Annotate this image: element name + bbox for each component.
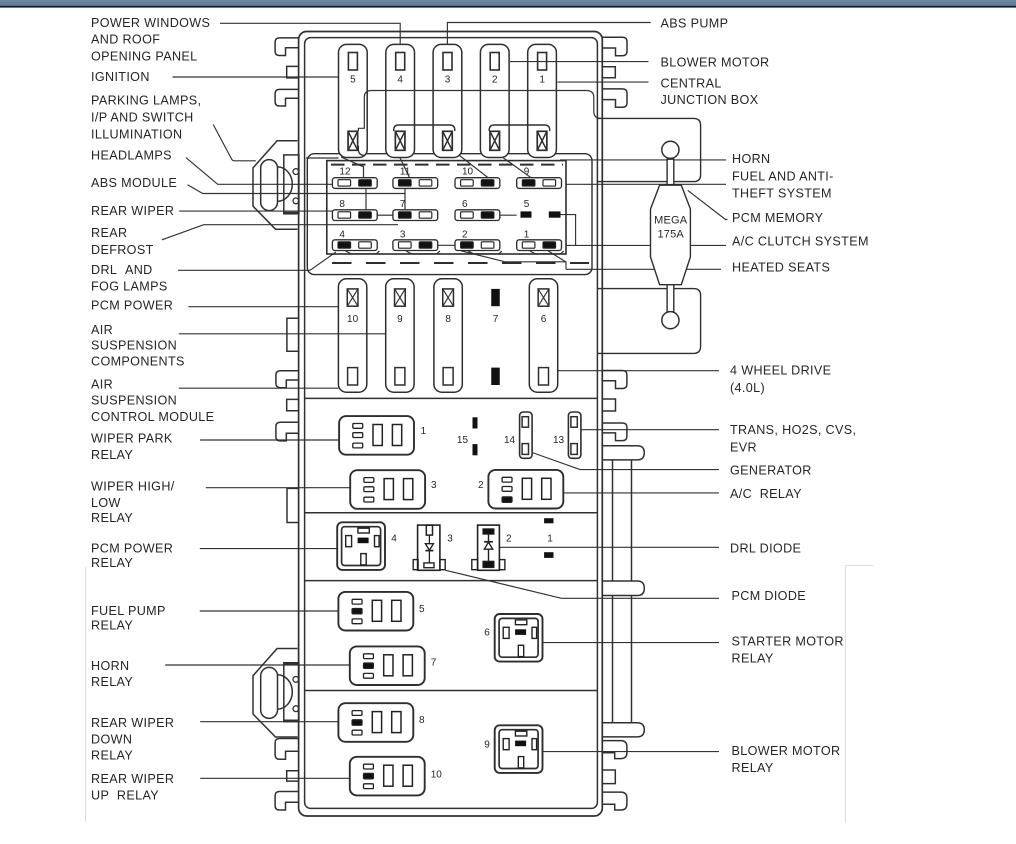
minifuse 6 <box>455 199 500 221</box>
svg-text:6: 6 <box>462 199 468 210</box>
svg-text:12: 12 <box>339 167 351 178</box>
right rail vertical A upper <box>612 460 614 581</box>
svg-text:JUNCTION BOX: JUNCTION BOX <box>661 93 759 107</box>
fuse F4 top holder <box>386 44 415 157</box>
svg-text:WIPER PARK: WIPER PARK <box>91 431 173 445</box>
svg-text:REAR WIPER: REAR WIPER <box>91 204 174 218</box>
svg-text:A/C RELAY: A/C RELAY <box>730 487 802 501</box>
wire ABS MODULE leader <box>188 185 405 194</box>
wire diagonal under minifuse 2 <box>461 251 566 262</box>
wire A/C RELAY leader <box>563 492 719 494</box>
svg-text:4: 4 <box>339 229 345 240</box>
lower connector stadium insert <box>261 667 278 718</box>
svg-text:11: 11 <box>400 167 411 178</box>
minifuse 8 <box>332 199 377 221</box>
wire GENERATOR leader <box>532 453 719 470</box>
section divider under diode row <box>305 580 598 582</box>
svg-text:THEFT SYSTEM: THEFT SYSTEM <box>732 187 832 201</box>
diode D3 <box>413 525 445 570</box>
svg-text:DOWN: DOWN <box>91 732 132 746</box>
wire bus fuse5 to mega bracket <box>358 91 601 132</box>
right rail rung middle <box>602 581 644 596</box>
wire WIPER PARK RELAY leader <box>200 439 339 441</box>
upper connector stadium insert <box>261 160 278 211</box>
svg-text:CONTROL MODULE: CONTROL MODULE <box>91 410 214 424</box>
svg-text:AND ROOF: AND ROOF <box>91 33 160 47</box>
fuse F5 flare <box>358 146 364 155</box>
minifuse 11 <box>393 167 438 189</box>
mega fuse top terminal circle <box>662 141 679 158</box>
svg-text:2: 2 <box>492 75 498 86</box>
svg-text:4: 4 <box>391 533 397 544</box>
minifuse 7 <box>393 199 438 221</box>
LEFT LABELS <box>91 16 214 802</box>
relay R9 blower motor <box>484 725 542 773</box>
fuse F3 top holder <box>433 44 462 157</box>
svg-text:AIR: AIR <box>91 323 113 337</box>
svg-text:POWER WINDOWS: POWER WINDOWS <box>91 16 210 30</box>
svg-text:BLOWER MOTOR: BLOWER MOTOR <box>661 56 770 70</box>
wire FUEL AND ANTI-THEFT leader <box>566 183 726 185</box>
wire FUEL PUMP RELAY leader <box>200 610 339 612</box>
wire minifuse 11 to 7 <box>404 188 406 209</box>
wire DRL AND FOG LAMPS leader <box>178 252 336 270</box>
svg-text:HEADLAMPS: HEADLAMPS <box>91 149 172 163</box>
left mounting tab hook 5 <box>275 739 299 760</box>
minifuse 5 terminals (fuse removed) <box>521 199 561 218</box>
svg-text:1: 1 <box>539 75 545 86</box>
svg-text:4: 4 <box>397 75 403 86</box>
wire BLOWER MOTOR leader <box>510 61 649 63</box>
svg-text:1: 1 <box>524 229 530 240</box>
svg-text:5: 5 <box>524 199 530 210</box>
minifuse 3 <box>393 229 438 250</box>
right rail vertical B upper <box>631 460 633 581</box>
mega fuse top stem <box>667 159 674 184</box>
svg-text:3: 3 <box>400 229 406 240</box>
svg-text:ABS MODULE: ABS MODULE <box>91 176 177 190</box>
upper connector pin circle 1 <box>293 169 299 175</box>
holder lip under row3 fuse <box>468 251 502 254</box>
diode D1 terminals <box>544 518 553 558</box>
section divider under maxi fuse row <box>305 397 598 399</box>
wire HORN RELAY leader <box>165 664 350 666</box>
wire fuse3 to minifuse 10 <box>452 150 488 178</box>
svg-text:5: 5 <box>350 75 356 86</box>
left mounting tab square 2 <box>287 399 299 410</box>
svg-text:BLOWER MOTOR: BLOWER MOTOR <box>732 744 841 758</box>
svg-text:3: 3 <box>447 533 453 544</box>
relay R6 starter motor <box>484 614 542 662</box>
svg-text:SUSPENSION: SUSPENSION <box>91 338 177 352</box>
wire PCM POWER RELAY leader <box>200 548 337 550</box>
wire WIPER HIGH/LOW RELAY leader <box>206 487 350 489</box>
svg-text:9: 9 <box>397 314 403 325</box>
wire TRANS HO2S CVS EVR leader <box>581 429 720 431</box>
fuse F1 top holder <box>528 44 557 157</box>
svg-text:OPENING PANEL: OPENING PANEL <box>91 49 198 63</box>
svg-text:RELAY: RELAY <box>732 761 774 775</box>
right rail rung bottom <box>602 723 644 737</box>
wire IGNITION leader <box>173 76 339 78</box>
wire fuse2 to minifuse 9 <box>493 150 532 178</box>
svg-text:6: 6 <box>541 314 547 325</box>
svg-text:IGNITION: IGNITION <box>91 70 150 84</box>
svg-text:13: 13 <box>553 435 565 446</box>
svg-text:PARKING LAMPS,: PARKING LAMPS, <box>91 94 201 108</box>
wire PCM MEMORY leader <box>688 190 728 219</box>
wire REAR WIPER DOWN RELAY leader <box>200 721 338 723</box>
svg-text:PCM DIODE: PCM DIODE <box>732 589 807 603</box>
left mounting tab hook 4 <box>276 422 299 441</box>
relay R8 rear wiper down <box>338 703 425 742</box>
svg-text:175A: 175A <box>657 228 684 240</box>
svg-text:14: 14 <box>504 435 516 446</box>
central junction box inner outline <box>305 38 598 809</box>
lower connector plate <box>284 663 299 722</box>
svg-text:GENERATOR: GENERATOR <box>730 464 812 478</box>
left mounting tab square 1 <box>287 66 299 78</box>
wire fuse5 to minifuse 12 <box>341 157 364 178</box>
svg-text:PCM POWER: PCM POWER <box>91 299 173 313</box>
lower connector D arc <box>278 675 293 709</box>
right mounting tab square 1 <box>602 67 615 78</box>
svg-text:WIPER HIGH/: WIPER HIGH/ <box>91 480 175 494</box>
svg-text:TRANS, HO2S, CVS,: TRANS, HO2S, CVS, <box>730 423 856 437</box>
svg-text:DRL DIODE: DRL DIODE <box>730 542 801 556</box>
wire REAR WIPER UP RELAY leader <box>200 777 350 779</box>
wire minifuse 6 to 5 <box>499 214 516 216</box>
component 13 <box>568 412 581 458</box>
lower connector plate thick bottom <box>284 719 299 722</box>
svg-text:RELAY: RELAY <box>91 511 133 525</box>
svg-text:9: 9 <box>484 739 490 750</box>
svg-text:3: 3 <box>431 480 437 491</box>
mega fuse bottom stem <box>667 285 674 312</box>
wire AIR SUSPENSION COMPONENTS leader <box>179 333 386 335</box>
section divider under horn relay row <box>305 690 598 692</box>
upper connector octagon <box>253 141 298 230</box>
dashed line top <box>331 164 563 166</box>
svg-text:PCM MEMORY: PCM MEMORY <box>732 211 824 225</box>
svg-text:RELAY: RELAY <box>91 675 133 689</box>
relay R10 rear wiper up <box>350 757 442 796</box>
mega fuse body MEGA 175A <box>651 185 691 285</box>
svg-text:ILLUMINATION: ILLUMINATION <box>91 128 182 142</box>
RIGHT LABELS <box>661 17 869 776</box>
svg-text:LOW: LOW <box>91 496 121 510</box>
wire AIR SUSPENSION CONTROL MODULE leader <box>179 387 339 389</box>
wire POWER WINDOWS leader <box>220 23 400 44</box>
svg-text:AIR: AIR <box>91 378 113 392</box>
wire PARKING LAMPS leader <box>213 125 256 161</box>
minifuse block container <box>307 154 592 275</box>
svg-text:1: 1 <box>421 426 427 437</box>
svg-text:MEGA: MEGA <box>654 214 688 226</box>
svg-text:7: 7 <box>493 314 499 325</box>
lower connector pin circle 1 <box>293 677 299 683</box>
svg-text:REAR WIPER: REAR WIPER <box>91 716 174 730</box>
svg-text:10: 10 <box>347 314 359 325</box>
lower connector plate thick top <box>284 662 299 664</box>
svg-text:UP RELAY: UP RELAY <box>91 788 159 802</box>
wire PCM DIODE leader <box>445 570 719 598</box>
svg-text:2: 2 <box>478 480 484 491</box>
svg-text:HORN: HORN <box>91 659 129 673</box>
right mounting tab hook 1 <box>602 37 627 56</box>
svg-text:1: 1 <box>547 533 553 544</box>
left mounting tab tall rect 1 <box>287 318 299 351</box>
left mounting tab hook 1 <box>275 38 299 56</box>
svg-text:10: 10 <box>431 770 443 781</box>
maxifuse 9 holder <box>386 279 414 392</box>
wire HEADLAMPS leader <box>186 158 333 185</box>
central junction box outer outline <box>299 32 603 817</box>
minifuse 4 <box>332 229 377 250</box>
left mounting tab hook 6 <box>275 792 299 811</box>
section divider under relay row 1-2-3 <box>305 512 598 514</box>
svg-text:A/C CLUTCH SYSTEM: A/C CLUTCH SYSTEM <box>732 235 869 249</box>
svg-text:EVR: EVR <box>730 441 757 455</box>
wire A/C CLUTCH SYSTEM leader <box>561 215 727 246</box>
maxifuse 7 terminals (fuse removed) <box>491 289 500 385</box>
wire STARTER MOTOR RELAY leader <box>543 642 720 644</box>
wire ABS PUMP leader <box>447 23 650 45</box>
component 15 terminals <box>473 417 478 455</box>
wire minifuse 8 to 7 <box>377 214 393 216</box>
mega fuse bracket upper <box>597 118 700 181</box>
wire DRL DIODE leader <box>499 546 719 548</box>
wire HORN leader <box>560 159 726 161</box>
svg-text:7: 7 <box>400 199 406 210</box>
component 14 <box>520 412 533 458</box>
svg-text:STARTER MOTOR: STARTER MOTOR <box>732 635 844 649</box>
lower connector octagon <box>253 649 298 738</box>
right rail vertical A lower <box>612 596 614 723</box>
svg-text:FUEL PUMP: FUEL PUMP <box>91 604 166 618</box>
relay R5 fuel pump <box>338 592 425 631</box>
wire minifuse 3 to 2 <box>438 244 455 246</box>
right mounting tab hook very bottom <box>602 792 627 810</box>
right rail vertical B lower <box>631 596 633 723</box>
left mounting tab hook 3 <box>276 371 299 388</box>
right mounting tab square bottom <box>602 770 615 784</box>
svg-text:ABS PUMP: ABS PUMP <box>661 17 729 31</box>
svg-text:DEFROST: DEFROST <box>91 243 154 257</box>
relay R4 pcm power <box>337 522 397 570</box>
holder lip under row3 fuse <box>406 251 440 254</box>
relay R1 wiper park <box>339 416 427 455</box>
svg-text:CENTRAL: CENTRAL <box>661 77 722 91</box>
left mounting tab hook 2 <box>275 89 299 106</box>
svg-text:6: 6 <box>484 628 490 639</box>
maxifuse 6 holder <box>529 279 557 392</box>
svg-text:RELAY: RELAY <box>91 749 133 763</box>
svg-text:8: 8 <box>419 715 425 726</box>
right mounting tab hook 4 <box>602 423 627 441</box>
upper connector plate <box>284 155 299 214</box>
svg-text:REAR WIPER: REAR WIPER <box>91 772 174 786</box>
svg-text:8: 8 <box>445 314 451 325</box>
svg-text:REAR: REAR <box>91 226 127 240</box>
maxifuse 10 holder <box>338 279 366 392</box>
svg-text:COMPONENTS: COMPONENTS <box>91 355 185 369</box>
svg-text:9: 9 <box>524 167 530 178</box>
svg-text:15: 15 <box>457 435 469 446</box>
svg-text:4 WHEEL DRIVE: 4 WHEEL DRIVE <box>730 364 831 378</box>
svg-text:I/P AND SWITCH: I/P AND SWITCH <box>91 111 194 125</box>
lower connector pin circle 2 <box>293 706 299 712</box>
svg-text:HORN: HORN <box>732 152 770 166</box>
faint page artifact lines <box>86 566 874 824</box>
left mounting tab square 3 <box>287 771 299 781</box>
svg-text:2: 2 <box>462 229 468 240</box>
fuse F2 top holder <box>480 44 509 157</box>
minifuse 1 <box>517 229 562 250</box>
wire CENTRAL JUNCTION BOX leader <box>558 81 649 83</box>
relay R2 A/C <box>478 470 563 509</box>
minifuse 12 <box>332 167 377 189</box>
minifuse 10 <box>455 167 500 189</box>
svg-text:PCM POWER: PCM POWER <box>91 541 173 555</box>
left mounting tab tall rect 2 <box>287 488 299 522</box>
relay R3 wiper high/low <box>350 470 437 509</box>
right mounting tab hook bottom <box>602 741 627 759</box>
minifuse block inner rect <box>327 161 566 254</box>
wire PCM POWER leader <box>188 306 338 308</box>
svg-text:DRL AND: DRL AND <box>91 263 153 277</box>
svg-text:RELAY: RELAY <box>91 448 133 462</box>
svg-text:8: 8 <box>339 199 345 210</box>
holder lip under row3 fuse <box>530 251 564 254</box>
svg-text:FUEL AND ANTI-: FUEL AND ANTI- <box>732 170 834 184</box>
svg-text:2: 2 <box>506 533 512 544</box>
svg-text:5: 5 <box>419 604 425 615</box>
svg-text:(4.0L): (4.0L) <box>730 381 765 395</box>
mega fuse bracket lower <box>597 289 700 354</box>
right mounting tab hook 2 <box>602 89 627 107</box>
holder lip under row3 fuse <box>346 251 380 254</box>
svg-text:SUSPENSION: SUSPENSION <box>91 394 177 408</box>
right rail rung top <box>602 446 644 460</box>
bracket over fuses 4 and 3 <box>394 125 455 131</box>
upper connector plate thick bottom <box>284 212 299 215</box>
wire 4 WHEEL DRIVE leader <box>558 370 719 372</box>
mega fuse bottom terminal circle <box>662 312 679 329</box>
bracket over fuses 2 and 1 <box>489 125 550 131</box>
wire HEATED SEATS leader <box>548 251 721 269</box>
maxifuse 8 holder <box>434 279 462 392</box>
wire fuse4 to minifuse 11 <box>396 150 409 178</box>
wire REAR DEFROST leader <box>162 225 398 240</box>
svg-text:RELAY: RELAY <box>91 556 133 570</box>
dashed line bottom <box>332 262 589 264</box>
fuse F5 top holder <box>339 44 368 157</box>
svg-text:10: 10 <box>462 167 474 178</box>
diode D2 <box>472 525 505 570</box>
svg-text:RELAY: RELAY <box>732 652 774 666</box>
svg-text:7: 7 <box>431 657 437 668</box>
wire minifuse 12 to 8 <box>365 188 367 209</box>
svg-text:HEATED SEATS: HEATED SEATS <box>732 261 830 275</box>
upper connector D arc <box>278 167 293 201</box>
svg-text:3: 3 <box>445 75 451 86</box>
header bar <box>0 0 1016 8</box>
minifuse 2 <box>455 229 500 250</box>
right mounting tab hook 3 <box>602 371 627 389</box>
wire BLOWER MOTOR RELAY leader <box>542 751 719 753</box>
relay R7 horn <box>350 646 437 685</box>
minifuse 9 <box>517 167 562 189</box>
upper connector pin circle 2 <box>293 198 299 204</box>
wire parking lamps bus <box>306 157 339 159</box>
right mounting tab square 2 <box>602 399 615 411</box>
wire REAR WIPER leader <box>179 210 332 212</box>
svg-text:FOG LAMPS: FOG LAMPS <box>91 280 168 294</box>
svg-text:RELAY: RELAY <box>91 619 133 633</box>
